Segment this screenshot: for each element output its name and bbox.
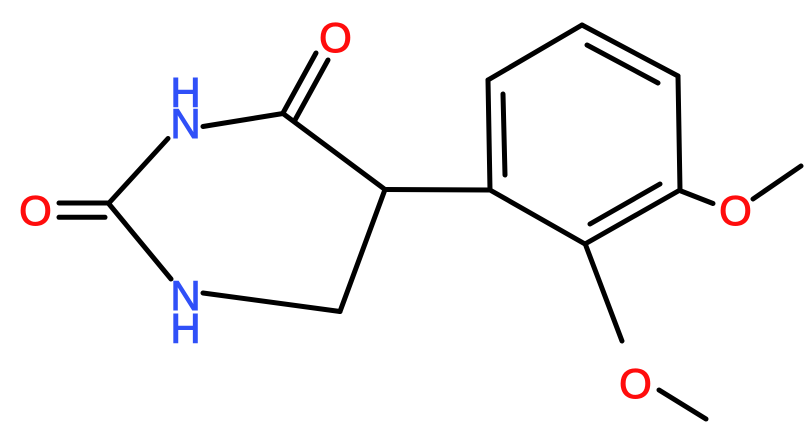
bond C4-N1: [203, 114, 283, 127]
aromatic inner line C5'-C6': [590, 184, 660, 224]
bond C6-C5: [340, 190, 385, 312]
bond C5-C4: [283, 114, 385, 190]
bond O-CH3 (upper methoxy): [753, 166, 801, 199]
aromatic inner line C3'-C4': [587, 45, 658, 83]
bond C2-N3: [109, 204, 171, 279]
bond C6'-O (methoxy): [586, 246, 622, 341]
svg-text:O: O: [19, 187, 52, 234]
benzene edge C5'-C6': [585, 190, 680, 244]
benzene edge C3'-C4': [582, 25, 678, 76]
benzene edge C6'-ipso: [490, 190, 585, 244]
svg-text:N: N: [170, 100, 200, 147]
benzene edge ipso-C2': [488, 80, 490, 190]
svg-text:O: O: [619, 360, 652, 407]
svg-text:O: O: [319, 14, 352, 61]
bond N3-C6: [203, 293, 340, 312]
svg-text:O: O: [719, 187, 752, 234]
double bond C4=O line 1: [283, 53, 316, 113]
bond N1-C2: [109, 139, 168, 204]
bond C5-phenyl ipso: [385, 187, 490, 193]
double bond C4=O line 2: [295, 60, 328, 120]
benzene edge C2'-C3': [488, 25, 582, 80]
double bond C2=O line 1: [59, 201, 109, 206]
bond C5'-O (methoxy): [681, 191, 713, 204]
bond O-CH3 (lower methoxy): [659, 390, 706, 419]
svg-text:H: H: [170, 305, 200, 352]
double bond C2=O line 2: [59, 215, 105, 220]
aromatic inner line ipso-C2': [503, 94, 505, 175]
benzene edge C4'-C5': [678, 76, 680, 190]
